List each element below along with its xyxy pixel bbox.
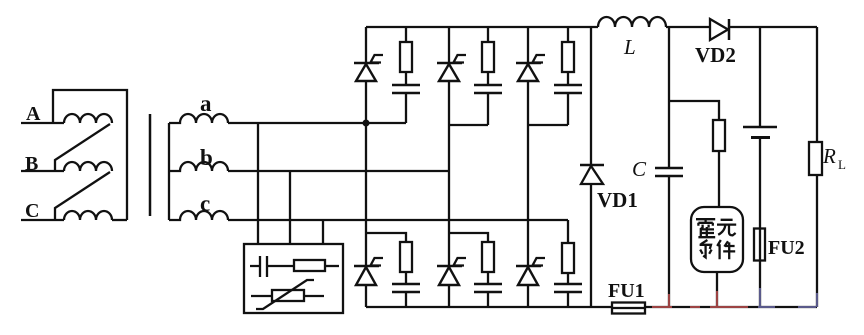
wire C-end to delta loop bbox=[112, 219, 127, 221]
wire tap from phase b bbox=[289, 171, 291, 244]
snubber R4 bbox=[366, 233, 412, 284]
wire star neutral bbox=[168, 123, 170, 220]
winding C (primary) bbox=[64, 211, 112, 220]
resistor (hall branch) bbox=[713, 120, 725, 207]
thyristor V1 (upper, phase a) bbox=[354, 27, 383, 123]
winding a (secondary) bbox=[169, 114, 228, 123]
wire bbox=[325, 265, 339, 267]
node a junction dot bbox=[363, 120, 370, 127]
svg-text:L: L bbox=[623, 35, 636, 59]
varistor RV (inside box) bbox=[251, 295, 272, 297]
thyristor V6 (lower, phase b) bbox=[437, 258, 466, 307]
winding b (secondary) bbox=[169, 162, 228, 171]
char 件 bbox=[717, 240, 735, 259]
wire tap to hall branch bbox=[669, 101, 719, 120]
svg-text:FU1: FU1 bbox=[608, 280, 645, 302]
wire phase B bbox=[21, 170, 64, 172]
snubber R3 bbox=[482, 27, 494, 85]
wire phase A bbox=[21, 122, 64, 124]
fuse FU1 bbox=[608, 280, 646, 314]
snubber R5 bbox=[562, 27, 574, 85]
snubber C4 bbox=[392, 284, 420, 307]
wire delta loop top (C-end to A-start) bbox=[53, 90, 127, 220]
fuse FU2 bbox=[754, 228, 805, 307]
thyristor V3 (upper, phase b) bbox=[437, 27, 466, 266]
winding A (primary) bbox=[64, 114, 112, 123]
svg-text:VD2: VD2 bbox=[695, 43, 736, 67]
snubber C3 bbox=[449, 85, 502, 125]
diode VD2 bbox=[695, 19, 817, 67]
bottom dc bus bbox=[366, 306, 817, 308]
inductor L bbox=[598, 17, 666, 59]
svg-text:A: A bbox=[26, 103, 41, 125]
svg-text:R: R bbox=[822, 144, 836, 168]
snubber R1 bbox=[400, 27, 412, 85]
char 尔 bbox=[700, 240, 712, 257]
winding c (secondary) bbox=[169, 211, 228, 220]
winding B (primary) bbox=[64, 162, 112, 171]
battery GB bbox=[743, 27, 777, 228]
svg-text:a: a bbox=[200, 91, 212, 116]
resistor (inside box) bbox=[294, 260, 325, 271]
wire delta diagonal B-end to C-start bbox=[55, 172, 110, 220]
char 霍 bbox=[696, 218, 715, 237]
thyristor V5 (upper, phase c) bbox=[516, 27, 545, 266]
capacitor (inside box) bbox=[250, 256, 294, 277]
svg-text:C: C bbox=[632, 157, 647, 181]
wire delta diagonal A-end to B-start bbox=[55, 124, 110, 171]
svg-text:FU2: FU2 bbox=[768, 237, 805, 259]
absorber box outline bbox=[244, 244, 343, 313]
snubber R6 bbox=[449, 233, 494, 284]
thyristor V2 (lower, phase c) bbox=[516, 258, 545, 307]
wire L to VD2 bbox=[666, 26, 710, 28]
char 元 bbox=[717, 220, 736, 236]
svg-text:L: L bbox=[838, 157, 846, 172]
hall element (霍尔元件) bbox=[691, 207, 743, 307]
load resistor RL bbox=[809, 27, 846, 307]
snubber C1 bbox=[392, 85, 420, 123]
svg-text:VD1: VD1 bbox=[597, 188, 638, 212]
wire phase c bbox=[228, 219, 568, 221]
watermark tint segments on bottom bus bbox=[652, 288, 817, 307]
snubber C5 bbox=[528, 85, 582, 125]
capacitor C (filter) bbox=[632, 27, 683, 307]
thyristor V4 (lower, phase a) bbox=[354, 123, 383, 307]
top dc bus bbox=[366, 26, 598, 28]
diode VD1 (freewheel) bbox=[580, 27, 638, 307]
wire tap from phase a bbox=[257, 123, 259, 244]
wire phase a bbox=[228, 122, 406, 124]
transformer core bbox=[149, 114, 152, 216]
svg-text:C: C bbox=[25, 200, 39, 222]
snubber R2 bbox=[562, 220, 574, 284]
wire tap from phase c bbox=[322, 220, 324, 244]
snubber C2 bbox=[554, 284, 582, 307]
wire phase b bbox=[228, 170, 449, 172]
snubber C6 bbox=[474, 284, 502, 307]
wire phase C bbox=[21, 219, 64, 221]
